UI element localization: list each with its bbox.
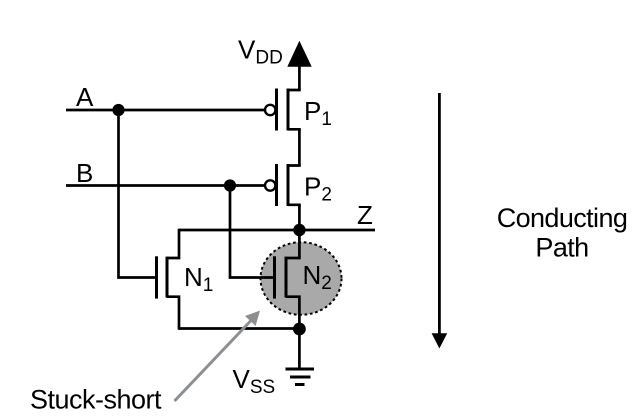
wire B junction down to N2 gate	[230, 186, 273, 278]
svg-text:B: B	[76, 158, 93, 188]
wire P1 source to P2 drain	[298, 129, 301, 166]
stuck-short pointer arrow	[175, 311, 261, 402]
wire node Z rail and output Z	[179, 229, 375, 232]
svg-text:P1: P1	[304, 96, 332, 130]
transistor N1 (NMOS)	[157, 229, 180, 330]
transistor N2 (NMOS)	[275, 229, 300, 330]
node VSS junction	[293, 323, 306, 336]
node Z junction	[293, 224, 305, 236]
ground symbol	[286, 369, 315, 385]
svg-text:Path: Path	[535, 233, 588, 263]
fault highlight circle (stuck-short region on N2)	[261, 242, 342, 315]
wire VSS node to ground	[298, 329, 301, 369]
wire bottom rail (N1 source to VSS node)	[179, 327, 299, 330]
wire input A to P1 gate	[66, 109, 264, 112]
svg-text:VSS: VSS	[233, 364, 276, 398]
svg-text:Conducting: Conducting	[497, 203, 628, 233]
svg-text:P2: P2	[304, 171, 332, 205]
node B junction	[224, 179, 236, 191]
conducting path arrow	[432, 93, 448, 349]
wire A junction down to N1 gate	[119, 110, 156, 278]
svg-text:Z: Z	[357, 200, 373, 230]
svg-text:A: A	[76, 82, 94, 112]
power VDD arrow	[287, 41, 311, 67]
svg-text:VDD: VDD	[238, 35, 283, 69]
transistor P1 (PMOS)	[265, 89, 299, 132]
wire VDD to P1 drain	[298, 66, 301, 90]
transistor P2 (PMOS)	[265, 164, 299, 207]
node A junction	[112, 104, 124, 116]
wire input B to P2 gate	[66, 184, 264, 187]
wire P2 source to node Z	[298, 205, 301, 231]
svg-text:N1: N1	[184, 262, 213, 296]
svg-text:Stuck-short: Stuck-short	[30, 384, 162, 414]
